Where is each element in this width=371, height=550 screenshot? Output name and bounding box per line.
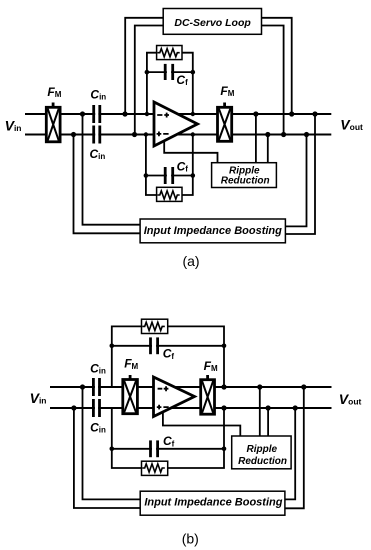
svg-text:Input Impedance Boosting: Input Impedance Boosting	[144, 225, 282, 237]
svg-text:DC-Servo Loop: DC-Servo Loop	[174, 17, 251, 29]
svg-text:Reduction: Reduction	[221, 175, 270, 186]
svg-text:(b): (b)	[182, 530, 199, 546]
svg-text:Reduction: Reduction	[238, 456, 287, 467]
svg-text:(a): (a)	[182, 253, 199, 269]
svg-text:Input Impedance Boosting: Input Impedance Boosting	[144, 496, 282, 508]
svg-text:Ripple: Ripple	[247, 444, 278, 455]
